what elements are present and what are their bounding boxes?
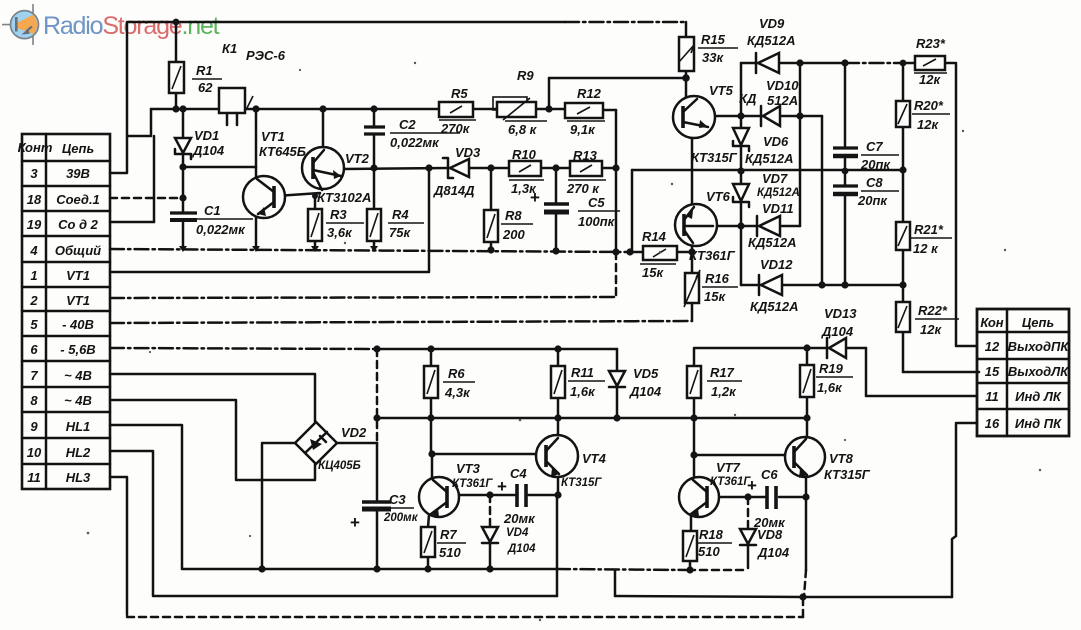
svg-text:VT6: VT6	[706, 189, 731, 204]
label R3	[326, 207, 364, 240]
wire pin6 -5,6V dash-dot	[110, 348, 377, 349]
label R4	[388, 207, 424, 240]
wire -5,6V rail solid	[377, 348, 617, 351]
svg-text:КТ361Г: КТ361Г	[452, 478, 493, 490]
wire VD4 bottom lead	[489, 543, 492, 569]
wire bridge right vertex	[337, 442, 377, 445]
wire VT4 collector lead	[557, 418, 560, 435]
resistor R6	[424, 366, 438, 398]
svg-text:Цепь: Цепь	[1022, 315, 1054, 330]
wire VD8 bottom lead	[747, 545, 750, 568]
svg-text:VD7: VD7	[762, 171, 788, 186]
resistor R7	[421, 527, 435, 557]
svg-text:75к: 75к	[389, 225, 411, 240]
label VD9	[747, 16, 795, 48]
resistor R19	[800, 365, 814, 397]
wire VT2 emitter line y168	[344, 168, 616, 169]
capacitor C5 electrolytic	[544, 204, 569, 212]
resistor R8	[484, 210, 498, 242]
svg-text:39В: 39В	[66, 166, 90, 181]
svg-text:VT3: VT3	[456, 461, 481, 476]
diode VD4	[482, 527, 498, 543]
wire VT1 base to VT2	[276, 193, 320, 196]
svg-text:4: 4	[29, 243, 38, 258]
wire C7C8 column	[844, 63, 847, 285]
wire R11 top lead	[557, 349, 560, 366]
wire y78 line to VT5 node	[549, 77, 686, 80]
svg-text:Соед.1: Соед.1	[56, 192, 100, 207]
svg-text:VT1: VT1	[66, 293, 90, 308]
capacitor C2	[364, 127, 385, 134]
wire VT5 top lead	[685, 78, 688, 97]
label C2	[390, 117, 460, 150]
svg-text:КТ3102А: КТ3102А	[317, 190, 371, 205]
svg-text:VT4: VT4	[582, 451, 607, 466]
transistor VT6	[675, 204, 717, 246]
svg-text:VD3: VD3	[455, 145, 481, 160]
capacitor C3 electrolytic	[362, 502, 391, 509]
svg-text:VD4: VD4	[506, 527, 529, 539]
capacitor C1	[170, 213, 197, 220]
wire R17 bottom to VT7 collector	[693, 398, 696, 477]
svg-text:Инд ПК: Инд ПК	[1015, 416, 1062, 431]
wire VT1 emitter to rail	[255, 217, 258, 249]
label VT2	[317, 151, 371, 205]
wire R7 bottom lead	[427, 557, 430, 569]
wire pin8 to bridge bottom	[110, 400, 315, 480]
svg-text:R9: R9	[517, 68, 534, 83]
wire R1 top lead	[175, 22, 178, 62]
svg-text:512А: 512А	[767, 93, 798, 108]
wire VT6 bottom to R16	[691, 245, 694, 273]
svg-text:С3: С3	[389, 492, 406, 507]
diode VD9	[756, 53, 779, 73]
resistor R4	[367, 209, 381, 241]
wire rail y570 dashed end	[688, 569, 748, 572]
resistor R11	[551, 366, 565, 398]
resistor R22	[896, 302, 910, 332]
svg-text:К1: К1	[222, 41, 237, 56]
svg-text:R3: R3	[330, 207, 347, 222]
wire pin19 Soed2	[110, 221, 154, 224]
svg-text:Д104: Д104	[629, 384, 662, 399]
logo orange horn	[17, 15, 37, 34]
label R13	[566, 148, 606, 196]
logo circle	[11, 11, 39, 39]
resistor R17	[687, 366, 701, 398]
svg-text:VD6: VD6	[763, 134, 789, 149]
wire R23 right corner to pin12	[945, 63, 977, 346]
svg-text:16: 16	[985, 416, 1000, 431]
svg-text:9,1к: 9,1к	[570, 122, 596, 137]
wire R22 bottom to pin15	[903, 371, 979, 374]
resistor R13	[570, 161, 602, 176]
svg-text:9: 9	[30, 419, 38, 434]
svg-text:КТ361Г: КТ361Г	[689, 248, 736, 263]
wire VD9 line y63	[741, 62, 915, 65]
label VT5	[691, 83, 738, 165]
svg-text:20мк: 20мк	[503, 511, 536, 526]
svg-text:R17: R17	[710, 365, 735, 380]
svg-text:R4: R4	[392, 207, 409, 222]
svg-text:7: 7	[30, 368, 38, 383]
svg-text:КД512А: КД512А	[745, 151, 793, 166]
label C5	[530, 188, 620, 229]
wire mid line y170	[632, 169, 903, 172]
wire VT3 base line y454	[432, 453, 536, 456]
svg-text:КД: КД	[739, 91, 757, 106]
svg-text:19: 19	[27, 217, 42, 232]
svg-text:R5: R5	[451, 86, 468, 101]
scan speckles	[87, 62, 1042, 621]
svg-text:20пк: 20пк	[860, 157, 891, 172]
svg-text:18: 18	[27, 192, 42, 207]
label VD4	[506, 527, 536, 555]
diode VD13	[827, 338, 846, 358]
wire R9R12 junction riser	[548, 78, 551, 109]
wire C5 column	[555, 168, 558, 251]
wire HL3 line	[110, 477, 127, 615]
wire VD13 line y348	[694, 347, 866, 350]
svg-text:HL1: HL1	[66, 419, 91, 434]
svg-text:12: 12	[985, 339, 1000, 354]
svg-text:RadioStorage.net: RadioStorage.net	[43, 12, 220, 40]
capacitor C7	[833, 148, 858, 156]
wire pin18 Soed1 dashed	[110, 197, 183, 200]
resistor R3	[308, 209, 322, 241]
label K1	[222, 41, 286, 63]
svg-text:С8: С8	[866, 175, 883, 190]
logo crosshair	[2, 4, 33, 45]
wire 39V jog to bus	[127, 109, 151, 136]
wire dashed riser x803	[802, 597, 805, 617]
wire VD13 corner to pin11	[866, 348, 977, 396]
label R21	[911, 222, 952, 256]
diode VD8	[740, 529, 756, 545]
svg-text:R11: R11	[571, 365, 594, 380]
svg-text:Конт: Конт	[18, 140, 53, 155]
svg-text:КТ315Г: КТ315Г	[824, 467, 871, 482]
svg-text:VD13: VD13	[824, 306, 857, 321]
label VT3	[452, 461, 493, 490]
svg-text:- 5,6В: - 5,6В	[60, 342, 95, 357]
label C1	[196, 203, 253, 237]
wire VT1 collector riser	[255, 109, 258, 176]
wire VT2 collector riser	[322, 109, 325, 148]
wire R16 bottom corner	[691, 303, 694, 321]
label C8	[857, 175, 899, 208]
svg-text:R6: R6	[448, 366, 465, 381]
diode VD6	[733, 128, 749, 151]
svg-text:R23*: R23*	[916, 36, 946, 51]
svg-text:11: 11	[27, 470, 41, 485]
resistor R20	[896, 101, 910, 127]
svg-text:КД512А: КД512А	[750, 299, 798, 314]
svg-text:270к: 270к	[440, 121, 471, 136]
wire R14 right to VT6 leg	[677, 251, 692, 254]
label R18	[696, 527, 732, 559]
svg-text:Кон: Кон	[980, 315, 1003, 330]
wire R8 column	[490, 168, 493, 250]
svg-text:Цепь: Цепь	[62, 141, 94, 156]
wire VD5 column	[616, 349, 619, 418]
svg-text:С6: С6	[761, 467, 778, 482]
svg-text:VT1: VT1	[66, 268, 90, 283]
label R9	[505, 68, 547, 137]
wire pin16 riser	[952, 423, 977, 597]
label R10	[509, 147, 544, 196]
svg-text:11: 11	[985, 389, 999, 404]
svg-text:С2: С2	[399, 117, 416, 132]
label VT6	[689, 189, 736, 263]
label R7	[437, 527, 466, 560]
wire pin5 -40V dash-dot line	[110, 321, 692, 323]
svg-text:12к: 12к	[917, 117, 939, 132]
wire R4 bottom lead	[373, 241, 376, 249]
svg-text:R20*: R20*	[914, 98, 944, 113]
svg-text:VD10: VD10	[766, 78, 799, 93]
svg-text:R16: R16	[705, 271, 730, 286]
resistor R15 trimmer	[679, 37, 694, 71]
svg-text:HL3: HL3	[66, 470, 91, 485]
label VD5	[629, 366, 662, 399]
wire main bus y109	[151, 109, 616, 110]
svg-text:VT7: VT7	[716, 460, 741, 475]
svg-text:R21*: R21*	[914, 222, 944, 237]
svg-text:R14: R14	[642, 229, 667, 244]
label C3	[350, 492, 419, 532]
svg-text:С5: С5	[588, 195, 605, 210]
diode VD7	[733, 184, 749, 207]
wire diode ladder left vertical x741	[740, 63, 743, 285]
resistor R5	[439, 102, 473, 117]
label VT1	[259, 129, 306, 159]
resistor R1	[169, 62, 184, 93]
svg-text:- 40В: - 40В	[62, 317, 94, 332]
diode VD5	[609, 371, 625, 387]
label VD2	[318, 425, 367, 472]
svg-text:R15: R15	[701, 32, 726, 47]
wire rail y570 dash-dot right	[556, 569, 688, 570]
wire VT5 emitter line y116	[711, 115, 822, 118]
svg-text:VD5: VD5	[633, 366, 659, 381]
capacitor C6	[767, 486, 776, 509]
svg-text:5: 5	[30, 317, 38, 332]
svg-text:62: 62	[198, 80, 213, 95]
svg-text:КТ315Г: КТ315Г	[561, 477, 602, 489]
wire VT8 emitter lead	[805, 477, 808, 497]
diode VD1	[175, 138, 191, 159]
svg-text:+: +	[530, 188, 540, 207]
svg-text:VD11: VD11	[762, 201, 794, 216]
wire VT8 collector lead	[806, 418, 809, 437]
svg-text:VD12: VD12	[760, 257, 793, 272]
svg-text:R22*: R22*	[918, 303, 948, 318]
svg-text:15к: 15к	[704, 289, 726, 304]
svg-text:Общий: Общий	[55, 243, 101, 258]
svg-text:VD8: VD8	[757, 527, 783, 542]
svg-text:0,022мк: 0,022мк	[196, 222, 246, 237]
label R22	[915, 303, 959, 337]
resistor R21	[896, 222, 910, 250]
wire VT7 emitter to R18	[690, 515, 693, 531]
wire HL2 line to riser	[110, 451, 557, 596]
svg-text:R12: R12	[577, 86, 602, 101]
wire R3 top lead	[314, 196, 317, 209]
svg-text:10: 10	[27, 445, 42, 460]
svg-text:15: 15	[985, 364, 1000, 379]
transistor VT2	[302, 147, 344, 190]
label R8	[501, 208, 533, 242]
wire supply rail y418	[377, 417, 807, 420]
label R15	[698, 32, 738, 65]
svg-text:Д814Д: Д814Д	[433, 183, 475, 198]
label VD12	[750, 257, 798, 314]
label VD8	[757, 527, 790, 560]
wire VD8 dashed lead	[747, 497, 750, 529]
label C6	[747, 467, 786, 530]
svg-text:КД512А: КД512А	[748, 235, 796, 250]
wire common rail y251 dash-dot	[110, 249, 628, 252]
logo transistor base bar	[15, 17, 18, 32]
wire VT5 to VT6	[691, 137, 694, 205]
wire VT6 right to VD11	[713, 225, 800, 228]
wire bus right corner down x616	[615, 110, 618, 252]
svg-text:Д104: Д104	[192, 143, 225, 158]
wire R15 bottom lead	[685, 71, 688, 78]
capacitor C8	[833, 186, 858, 194]
svg-text:R13: R13	[573, 148, 598, 163]
label VT7	[710, 460, 751, 488]
wire R20 R21 R22 column	[902, 63, 905, 372]
svg-text:R10: R10	[512, 147, 537, 162]
svg-text:15к: 15к	[642, 265, 664, 280]
wire R17 top lead	[693, 349, 696, 366]
wire HL1 line y569	[110, 425, 556, 569]
wire top line dash-dot right portion	[565, 21, 686, 24]
svg-text:VT5: VT5	[709, 83, 734, 98]
wire C2 column through R4	[373, 109, 376, 209]
svg-text:КД512А: КД512А	[757, 187, 800, 199]
svg-text:~ 4В: ~ 4В	[64, 368, 92, 383]
wire pin7 to bridge top	[110, 374, 315, 424]
svg-text:VD9: VD9	[759, 16, 785, 31]
transistor VT4	[536, 435, 578, 477]
label R11	[568, 365, 605, 399]
wire R6 top lead	[430, 349, 433, 366]
svg-text:3,6к: 3,6к	[327, 225, 353, 240]
svg-text:КТ645Б: КТ645Б	[259, 144, 306, 159]
svg-text:R8: R8	[505, 208, 522, 223]
capacitor C4	[517, 484, 526, 507]
svg-text:20пк: 20пк	[857, 193, 888, 208]
diode VD12	[759, 275, 782, 295]
svg-text:+: +	[747, 476, 757, 495]
wire VT8 base line y455	[694, 454, 784, 457]
resistor R10	[509, 161, 541, 176]
relay K1 contact	[219, 88, 253, 125]
right connector table	[977, 309, 1069, 436]
label VT8	[824, 451, 871, 482]
svg-text:4,3к: 4,3к	[444, 385, 471, 400]
wire R11 bottom lead	[557, 398, 560, 418]
rail connection arrows	[179, 246, 378, 252]
wire R18 bottom lead	[689, 560, 692, 570]
svg-text:Д104: Д104	[757, 545, 790, 560]
resistor R18	[683, 531, 697, 561]
svg-text:200: 200	[502, 227, 525, 242]
wire x822 corner down	[821, 116, 824, 285]
wire VT4 emitter long riser	[556, 495, 559, 596]
wire 39V pin3 to top line	[110, 22, 565, 173]
wire VT3 emitter to R7	[428, 515, 429, 527]
transistor VT7	[679, 477, 719, 517]
label C4	[497, 466, 536, 526]
label R6	[443, 366, 475, 400]
wire pin1 VT1 line	[110, 168, 429, 272]
svg-text:R18: R18	[699, 527, 724, 542]
svg-text:270 к: 270 к	[566, 181, 600, 196]
svg-text:200мк: 200мк	[383, 512, 419, 524]
label VD11	[748, 201, 796, 250]
svg-text:HL2: HL2	[66, 445, 91, 460]
logo emitter arrow	[27, 27, 33, 32]
svg-text:1,6к: 1,6к	[817, 380, 843, 395]
label R1	[192, 63, 222, 95]
resistor R9 trimmer	[493, 97, 536, 120]
svg-text:РЭС-6: РЭС-6	[246, 48, 286, 63]
wire bridge left vertex down	[262, 443, 295, 569]
svg-text:VD1: VD1	[194, 128, 219, 143]
label R20	[912, 98, 950, 132]
svg-text:510: 510	[439, 545, 461, 560]
svg-text:2: 2	[29, 293, 38, 308]
svg-text:12к: 12к	[919, 72, 941, 87]
wire x616 dashed to pin2 line	[615, 252, 618, 297]
svg-text:VT1: VT1	[261, 129, 285, 144]
wire y63 dash-dot mid	[845, 62, 903, 65]
wire pin2 VT1 dash-dot line	[110, 297, 616, 298]
svg-text:VD2: VD2	[341, 425, 367, 440]
svg-text:VT2: VT2	[345, 151, 370, 166]
transistor VT8	[785, 437, 825, 478]
bridge rectifier VD2	[295, 422, 337, 464]
wire corner x615 down	[614, 570, 617, 596]
wire bridge plus dashed riser	[376, 349, 379, 443]
label VD13	[821, 306, 857, 339]
svg-text:+: +	[350, 513, 360, 532]
svg-text:1: 1	[30, 268, 37, 283]
label VD3	[433, 145, 481, 198]
svg-text:R19: R19	[819, 361, 844, 376]
svg-text:VT8: VT8	[829, 451, 854, 466]
label R12	[567, 86, 605, 137]
svg-text:КТ361Г: КТ361Г	[710, 476, 751, 488]
transistor VT3	[419, 477, 459, 517]
wire R6 bottom to VT3 collector	[431, 398, 432, 478]
svg-text:Инд ЛК: Инд ЛК	[1015, 389, 1062, 404]
label VD1	[192, 128, 225, 158]
label R14	[640, 229, 676, 280]
wire VD1 to VT1 collector	[183, 166, 256, 169]
wire rail to R14	[628, 251, 643, 254]
svg-text:33к: 33к	[702, 50, 724, 65]
svg-text:8: 8	[30, 393, 38, 408]
label R5	[439, 86, 476, 136]
svg-text:Со д 2: Со д 2	[58, 217, 99, 232]
diode VD11	[757, 216, 780, 236]
svg-text:12к: 12к	[920, 322, 942, 337]
